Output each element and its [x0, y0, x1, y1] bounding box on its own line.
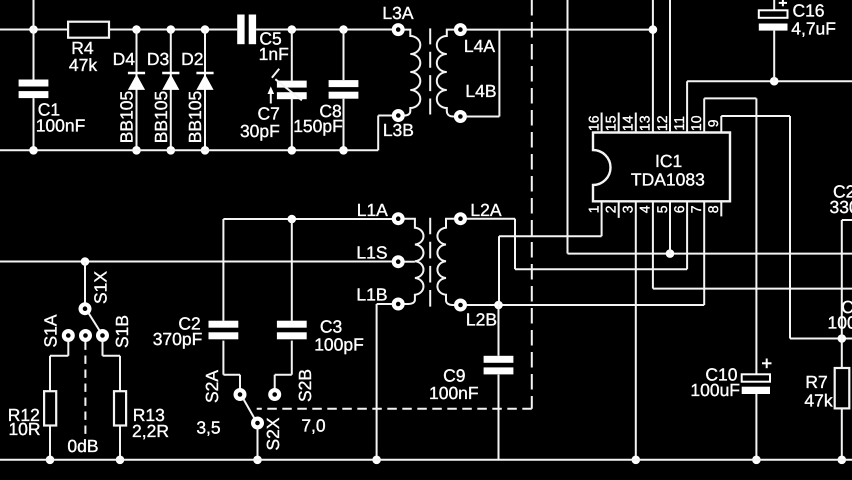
wire pin 1 to L2B node [601, 201, 603, 236]
capacitor C1 [19, 80, 49, 87]
capacitor C7 trimmer [277, 81, 307, 88]
svg-text:L4A: L4A [464, 36, 495, 56]
capacitor C8 [329, 80, 359, 87]
node C16 junction [770, 77, 779, 86]
svg-text:1nF: 1nF [259, 44, 289, 64]
node C3 tap on L1A wire [288, 215, 297, 224]
wire L1S tap [404, 261, 415, 263]
node lower rail at C7 [288, 146, 297, 155]
wire pin 11 to right edge [686, 81, 688, 132]
wire pin 2 stub [618, 201, 620, 218]
svg-text:2,2R: 2,2R [132, 421, 169, 441]
svg-text:150pF: 150pF [293, 116, 343, 136]
svg-text:14: 14 [620, 115, 636, 131]
wire C7 bottom lead [291, 98, 293, 150]
svg-text:10: 10 [688, 115, 704, 131]
svg-text:L2B: L2B [466, 309, 497, 329]
svg-text:4: 4 [637, 205, 653, 213]
wire L1B down to bottom rail [377, 303, 393, 305]
svg-text:D4: D4 [113, 49, 136, 69]
node bottom rail at R7 [838, 456, 847, 465]
terminal L1A [394, 214, 403, 223]
resistor R4 [68, 22, 109, 38]
terminal L4B [456, 112, 465, 121]
svg-text:1: 1 [585, 205, 601, 213]
wire pin13 vertical from top edge [652, 0, 654, 133]
svg-text:BB105: BB105 [117, 91, 137, 144]
svg-text:S1X: S1X [91, 271, 111, 304]
terminal L4A [456, 25, 465, 34]
wire pin 14 stub [635, 113, 637, 133]
wire D3 vertical [170, 30, 172, 151]
svg-text:100nF: 100nF [429, 383, 479, 403]
node S1X tap [81, 257, 90, 266]
svg-text:8: 8 [705, 205, 721, 213]
svg-text:0dB: 0dB [67, 436, 98, 456]
svg-text:D3: D3 [147, 49, 169, 69]
node bottom rail at L1B wire [372, 456, 381, 465]
wire pin 6 to L2A [686, 201, 688, 269]
svg-text:L3B: L3B [383, 120, 414, 140]
trimmer C7 arrow diagonal [275, 79, 302, 100]
svg-text:7: 7 [688, 205, 704, 213]
node bottom rail at S2X [253, 456, 262, 465]
switch S2 lever [243, 399, 254, 419]
svg-text:S2X: S2X [263, 417, 283, 450]
capacitor C9 [484, 356, 514, 363]
terminal S1X [81, 304, 90, 313]
svg-text:100nF: 100nF [36, 115, 86, 135]
inductor L2 winding [437, 219, 454, 305]
wire C2 top lead [222, 219, 224, 321]
capacitor C2 [209, 321, 239, 328]
node lower rail at D4 [132, 146, 141, 155]
svg-text:30pF: 30pF [240, 121, 280, 141]
wire top rail C5 to L3A [256, 29, 392, 31]
resistor R13 [114, 391, 126, 425]
node C1/R4 junction [29, 25, 38, 34]
wire S1A to R12 [67, 340, 69, 356]
svg-text:BB105: BB105 [185, 91, 205, 144]
node bottom rail at pin 3 [632, 456, 641, 465]
wire D4 vertical [136, 30, 138, 151]
wire C8 top lead [343, 30, 345, 81]
transformer core L1/L2 dashed [429, 218, 431, 307]
diode D2 BB105 [196, 72, 213, 75]
wire C9 top lead [498, 305, 500, 356]
wire L4A to pin13 node [466, 29, 653, 31]
svg-text:L1S: L1S [356, 242, 387, 262]
terminal S1 center [81, 331, 90, 340]
svg-text:16: 16 [585, 115, 601, 131]
svg-text:100pF: 100pF [314, 334, 364, 354]
resistor R12 [44, 391, 56, 425]
wire pin 16 stub [601, 113, 603, 133]
svg-text:S1B: S1B [112, 315, 132, 348]
wire L1S rail from left edge [0, 261, 392, 263]
switch S1 lever [88, 313, 99, 331]
terminal L2A [456, 214, 465, 223]
wire C16 top lead [773, 0, 775, 10]
node top rail at C7 [288, 25, 297, 34]
terminal L3B [394, 111, 403, 120]
trimmer C7 adjust arrow [270, 92, 272, 104]
wire lower-left rail [0, 149, 378, 151]
wire S1B to R13 [102, 340, 104, 356]
inductor L3 winding [404, 30, 420, 116]
terminal L3A [394, 25, 403, 34]
wire capacitor C21 lead from right edge [842, 219, 852, 221]
capacitor C3 [277, 321, 307, 328]
svg-text:L2A: L2A [470, 200, 501, 220]
terminal L1S [394, 257, 403, 266]
svg-text:330pF: 330pF [830, 197, 852, 217]
capacitor C5 [237, 15, 244, 45]
wire D2 vertical [204, 30, 206, 151]
terminal S2X [253, 419, 262, 428]
svg-text:12: 12 [654, 115, 670, 131]
wire L2B node horizontal [466, 304, 704, 306]
svg-text:10R: 10R [8, 419, 40, 439]
wire pin 8 stub [720, 201, 722, 216]
wire R7 bottom lead [841, 408, 843, 459]
inductor L4 winding [437, 30, 455, 117]
wire R7 top lead [841, 339, 843, 369]
svg-text:15: 15 [603, 115, 619, 131]
diode D4 BB105 [128, 72, 145, 75]
dashed shield horizontal [257, 408, 532, 410]
wire C1 node up to top edge [33, 0, 35, 30]
wire pin 9 down right side [720, 116, 722, 133]
wire pin12 vertical from top edge [669, 0, 671, 133]
node lower rail at D2 [201, 146, 210, 155]
node top rail at D4 [132, 25, 141, 34]
wire top rail from left edge to R4 [0, 29, 68, 31]
node bottom rail at R13 [116, 456, 125, 465]
terminal S2A [236, 390, 245, 399]
wire C7 top lead [291, 30, 293, 81]
dashed shield vertical [531, 0, 533, 409]
wire pin 7 to L2B wire [703, 201, 705, 305]
svg-text:TDA1083: TDA1083 [631, 169, 705, 189]
svg-text:L1A: L1A [357, 200, 388, 220]
wire pin 15 stub [618, 113, 620, 133]
inductor L1 winding [404, 219, 423, 304]
transformer core L3/L4 dashed [429, 28, 431, 114]
svg-text:2: 2 [603, 205, 619, 213]
svg-text:S2B: S2B [295, 369, 315, 402]
svg-text:7,0: 7,0 [301, 416, 326, 436]
dashed 0dB axis [84, 342, 86, 438]
diode D3 BB105 [162, 72, 179, 75]
svg-text:3: 3 [620, 205, 636, 213]
resistor R7 [835, 368, 850, 408]
svg-text:11: 11 [671, 116, 687, 131]
node top rail at D3 [167, 25, 176, 34]
svg-text:4,7uF: 4,7uF [791, 18, 836, 38]
node pin13 / L4A junction [649, 25, 658, 34]
wire R13 to bottom rail [119, 426, 121, 460]
wire C1 bottom lead [33, 98, 35, 150]
node top rail at D2 [201, 25, 210, 34]
svg-text:R7: R7 [805, 372, 827, 392]
wire bottom rail [0, 459, 852, 461]
wire antenna vertical to pin5 rail [567, 0, 569, 254]
svg-text:100nF: 100nF [828, 312, 852, 332]
svg-text:370pF: 370pF [153, 329, 203, 349]
wire pin 10 down to C10 [703, 98, 705, 132]
wire L1A node horizontal [223, 218, 392, 220]
wire C10 bottom lead [755, 394, 757, 460]
capacitor C16 electrolytic [759, 10, 788, 17]
node lower rail at C1 [29, 146, 38, 155]
terminal S2B [270, 390, 279, 399]
svg-text:L3A: L3A [382, 3, 413, 23]
svg-text:100uF: 100uF [690, 380, 740, 400]
terminal S1A [64, 331, 73, 340]
wire C8 bottom lead [343, 99, 345, 151]
svg-text:3,5: 3,5 [196, 418, 220, 438]
IC IC1 TDA1083 body [593, 133, 730, 202]
svg-text:47k: 47k [69, 55, 97, 75]
node lower rail at D3 [167, 146, 176, 155]
wire C2 bottom lead [222, 341, 224, 375]
node lower rail at C8 [339, 146, 348, 155]
svg-text:L1B: L1B [356, 285, 387, 305]
svg-text:9: 9 [705, 119, 721, 127]
wire C3 top lead [291, 219, 293, 321]
node L2B junction [494, 301, 503, 310]
node bottom rail at C10 [752, 456, 761, 465]
wire S1X lead [84, 262, 86, 305]
svg-text:BB105: BB105 [151, 91, 171, 144]
wire L4B loop right side [498, 30, 500, 117]
svg-text:L4B: L4B [465, 81, 496, 101]
svg-text:47k: 47k [804, 391, 832, 411]
wire pin 5 lead [669, 201, 671, 253]
wire R12 to bottom rail [49, 426, 51, 460]
wire top rail R4 to C5 [109, 29, 237, 31]
wire pin 4 to right edge [652, 201, 654, 288]
terminal L2B [456, 301, 465, 310]
wire pin 3 to bottom rail [635, 201, 637, 460]
wire C3 bottom lead [291, 341, 293, 375]
node pin5 junction [666, 249, 675, 258]
node R7 top junction [838, 334, 847, 343]
terminal L1B [394, 300, 403, 309]
wire C1 top lead [33, 30, 35, 80]
svg-text:D2: D2 [181, 49, 203, 69]
svg-text:6: 6 [671, 205, 687, 213]
wire C16 bottom lead [773, 31, 775, 82]
svg-text:5: 5 [654, 205, 670, 213]
wire S2X to bottom rail [257, 428, 259, 460]
wire L3B to lower rail [377, 116, 379, 151]
svg-text:13: 13 [637, 115, 653, 131]
node bottom rail at R12 [46, 456, 55, 465]
node top rail at C8 [339, 25, 348, 34]
wire C9 bottom lead [498, 375, 500, 460]
svg-text:S1A: S1A [41, 314, 61, 347]
svg-text:S2A: S2A [202, 370, 222, 403]
svg-text:IC1: IC1 [655, 151, 682, 171]
capacitor C10 electrolytic [742, 374, 770, 381]
terminal S1B [98, 331, 107, 340]
